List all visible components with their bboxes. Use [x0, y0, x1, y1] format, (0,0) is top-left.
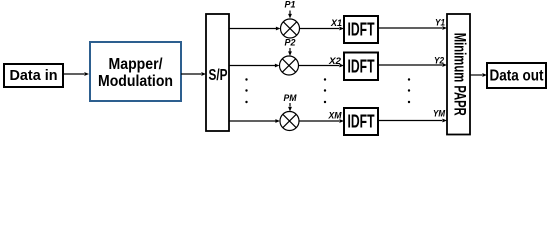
- dots column between IDFT branches: [408, 78, 410, 103]
- block IDFT M: [344, 108, 378, 135]
- wire multiplier M to IDFT M: [299, 119, 344, 123]
- dots column between multiplier branches: [324, 78, 326, 103]
- block "Data out": [487, 63, 546, 88]
- wire IDFT M to Minimum PAPR: [378, 119, 447, 123]
- wire S/P to multiplier M: [229, 119, 280, 123]
- wire S/P to multiplier 2: [229, 64, 280, 68]
- wire IDFT 2 to Minimum PAPR: [378, 63, 447, 67]
- svg-text:YM: YM: [433, 109, 445, 119]
- svg-text:XM: XM: [328, 111, 342, 121]
- svg-text:P2: P2: [285, 38, 297, 48]
- wire Data in to Mapper: [63, 72, 89, 76]
- svg-text:Data out: Data out: [490, 68, 544, 85]
- svg-text:Data in: Data in: [10, 67, 58, 84]
- svg-text:IDFT: IDFT: [348, 20, 375, 40]
- svg-text:IDFT: IDFT: [348, 112, 375, 132]
- block IDFT 2: [344, 53, 378, 81]
- block "Data in": [4, 64, 63, 87]
- wire Minimum PAPR to Data out: [470, 73, 487, 77]
- svg-text:PM: PM: [284, 93, 297, 103]
- block "Mapper/Modulation" U-mapper: [90, 42, 181, 101]
- wire P2 arrow down: [288, 48, 292, 56]
- multiplier 1: [281, 19, 300, 38]
- dots column between S/P branches: [245, 78, 247, 103]
- wire IDFT 1 to Minimum PAPR: [378, 26, 447, 30]
- wire S/P to multiplier 1: [229, 27, 281, 31]
- block "S/P" serial-to-parallel: [206, 14, 229, 131]
- svg-text:X1: X1: [330, 18, 342, 28]
- wire P1 arrow down: [288, 11, 292, 19]
- svg-text:IDFT: IDFT: [348, 57, 375, 77]
- multiplier M: [280, 112, 299, 131]
- svg-text:Y1: Y1: [435, 18, 445, 28]
- wire multiplier 2 to IDFT 2: [299, 64, 345, 68]
- svg-text:Minimum PAPR: Minimum PAPR: [451, 33, 470, 116]
- svg-text:S/P: S/P: [209, 67, 228, 84]
- wire Mapper to S/P: [181, 72, 206, 76]
- block IDFT 1: [344, 16, 378, 43]
- wire multiplier 1 to IDFT 1: [300, 27, 345, 31]
- block "Minimum PAPR" selector: [447, 14, 470, 135]
- svg-text:Modulation: Modulation: [98, 73, 173, 90]
- svg-text:Mapper/: Mapper/: [109, 56, 163, 73]
- wire PM arrow down: [288, 103, 292, 112]
- multiplier 2: [280, 56, 299, 75]
- svg-text:P1: P1: [285, 0, 296, 10]
